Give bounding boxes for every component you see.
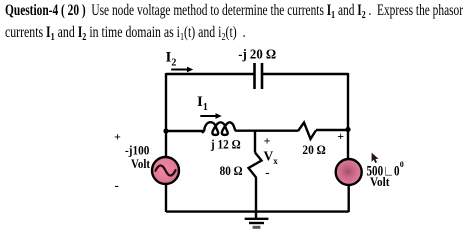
svg-text:I2: I2 <box>166 50 177 69</box>
svg-text:j 12 Ω: j 12 Ω <box>210 137 241 151</box>
svg-text:+: + <box>114 130 121 144</box>
value label 80 ohm <box>220 163 243 178</box>
svg-text:Volt: Volt <box>370 175 390 189</box>
wire right vertical lower <box>348 185 350 212</box>
svg-text:I1: I1 <box>197 94 208 113</box>
svg-text:-j 20 Ω: -j 20 Ω <box>238 47 276 62</box>
voltage source V1 -j100 <box>152 157 179 184</box>
polarity minus V1 <box>115 178 119 193</box>
value label -j 20 ohm <box>238 47 276 62</box>
current label I2 <box>166 50 177 69</box>
resistor R2 20 ohm <box>298 123 316 140</box>
wire middle-left horizontal <box>166 130 203 132</box>
wire top-left horizontal <box>166 73 254 75</box>
svg-text:Vx: Vx <box>264 148 279 165</box>
node label Vx <box>264 148 279 165</box>
value label 500 angle 0 Volt <box>367 160 404 189</box>
wire left vertical upper <box>165 73 167 158</box>
svg-text:20 Ω: 20 Ω <box>302 142 325 157</box>
voltage source V2 500 angle 0 <box>336 159 362 185</box>
svg-text:0: 0 <box>400 160 404 169</box>
polarity minus Vx <box>265 164 269 179</box>
node B junction dot <box>345 127 350 132</box>
value label j 12 ohm <box>210 137 241 151</box>
wire top-right horizontal <box>263 73 348 75</box>
current arrow I2 <box>171 67 193 73</box>
svg-text:80 Ω: 80 Ω <box>220 163 243 178</box>
polarity plus Vx <box>264 134 271 148</box>
polarity plus V2 <box>337 129 344 143</box>
svg-text:+: + <box>337 129 344 143</box>
value label 20 ohm <box>302 142 325 157</box>
current label I1 <box>197 94 208 113</box>
node A junction dot <box>163 128 168 133</box>
wire left vertical lower <box>165 184 167 213</box>
svg-text:Volt: Volt <box>131 156 151 171</box>
svg-text:-: - <box>265 164 269 179</box>
wire bottom horizontal <box>166 210 349 212</box>
svg-text:-: - <box>115 178 119 193</box>
ground <box>245 212 269 228</box>
wire branch Vx vertical lower <box>255 178 257 212</box>
value label -j100 Volt <box>125 143 151 172</box>
wire middle-center horizontal <box>236 129 298 131</box>
wire middle-right horizontal <box>316 129 348 131</box>
polarity plus V1 <box>114 130 121 144</box>
wire right vertical upper <box>347 73 349 159</box>
svg-text:+: + <box>264 134 271 148</box>
capacitor C1 -j20 ohm <box>255 63 263 89</box>
current arrow I1 <box>200 113 222 119</box>
wire branch Vx vertical upper <box>254 130 256 153</box>
resistor R1 80 ohm <box>249 153 262 179</box>
mouse cursor <box>372 153 379 163</box>
inductor L1 j12 ohm <box>203 122 237 135</box>
